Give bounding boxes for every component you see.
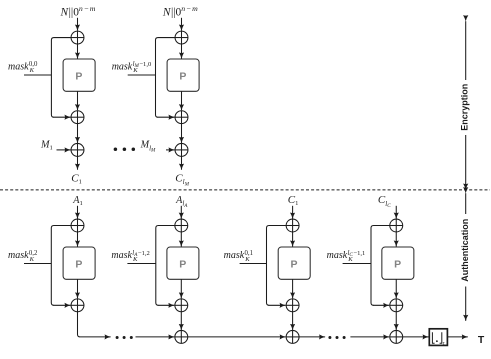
xor gate pre-whitening (auth branch 1)	[71, 219, 84, 232]
wire P to xor (auth branch 3)	[292, 279, 294, 298]
wire P to xor (auth branch 1)	[77, 279, 79, 298]
wire mask into post-whitening xor (auth branch 3)	[269, 304, 286, 306]
wire mask feed (auth branch 4)	[343, 263, 371, 265]
wire mask into post-whitening xor (branch 1)	[53, 116, 70, 118]
wire chain start from branch 1 down to accumulation row	[78, 312, 81, 337]
xor gate pre-whitening (auth branch 2)	[175, 219, 188, 232]
wire P to xor (auth branch 2)	[180, 279, 182, 298]
wire N input to xor (branch 1)	[77, 18, 79, 31]
wire mask feed (branch 2)	[128, 74, 156, 76]
ellipsis dots (accumulation row right)	[328, 336, 345, 339]
wire P to xor (branch 1)	[77, 91, 79, 110]
svg-text:mask: mask	[111, 250, 132, 261]
wire mask rail (auth branch 4)	[371, 226, 390, 306]
wire accumulation xor 4 to truncation box	[403, 336, 429, 338]
svg-text:K: K	[29, 256, 35, 263]
wire input to xor (auth branch 2)	[180, 206, 182, 219]
wire xor to P (auth branch 4)	[395, 232, 397, 247]
svg-text:P: P	[290, 258, 297, 270]
xor gate accumulation (auth branch 4)	[390, 330, 403, 343]
svg-text:mask: mask	[327, 250, 348, 261]
xor gate pre-whitening (encryption branch 1)	[71, 31, 84, 44]
xor gate post-whitening (auth branch 3)	[286, 299, 299, 312]
xor gate accumulation (auth branch 2)	[175, 330, 188, 343]
wire N input to xor (branch 2)	[181, 18, 183, 31]
wire mask into post-whitening xor (branch 2)	[158, 116, 175, 118]
wire accumulation xor 2 to 3	[188, 336, 286, 338]
wire truncation box to tag output	[447, 336, 467, 338]
permutation P (auth branch 2)	[167, 247, 199, 279]
wire xor to P (auth branch 1)	[77, 232, 79, 247]
ellipsis dots (accumulation row left)	[116, 336, 133, 339]
wire mask into post-whitening xor (auth branch 4)	[373, 304, 389, 306]
wire xor to P (auth branch 2)	[180, 232, 182, 247]
truncation box [.]_tau	[429, 329, 447, 347]
wire P to xor (branch 2)	[181, 91, 183, 110]
wire xor down to accumulation xor (auth branch 3)	[292, 312, 294, 330]
permutation P (auth branch 3)	[278, 247, 310, 279]
authentication section span arrow	[465, 193, 467, 321]
xor gate pre-whitening (auth branch 4)	[390, 219, 403, 232]
wire xor to message xor (branch 2)	[181, 124, 183, 143]
svg-text:mask: mask	[112, 61, 133, 72]
xor gate pre-whitening (encryption branch 2)	[175, 31, 188, 44]
wire ellipsis to accumulation xor 2	[136, 336, 175, 338]
svg-text:P: P	[394, 258, 401, 270]
xor gate post-whitening (auth branch 1)	[71, 299, 84, 312]
wire xor to P (branch 2)	[181, 44, 183, 59]
wire to ellipsis (accumulation row)	[80, 336, 111, 338]
wire input to xor (auth branch 3)	[292, 206, 294, 219]
xor gate post-whitening (auth branch 2)	[175, 299, 188, 312]
wire xor to P (branch 1)	[77, 44, 79, 59]
wire mask rail (encryption branch 2)	[156, 38, 176, 118]
svg-text:T: T	[478, 335, 485, 346]
wire to ciphertext output (branch 1)	[77, 156, 79, 169]
permutation P (encryption branch 1)	[63, 59, 95, 91]
permutation P (encryption branch 2)	[167, 59, 199, 91]
xor gate post-whitening (auth branch 4)	[390, 299, 403, 312]
permutation P (auth branch 1)	[63, 247, 95, 279]
xor gate pre-whitening (auth branch 3)	[286, 219, 299, 232]
svg-text:K: K	[244, 256, 250, 263]
xor gate post-whitening (encryption branch 1)	[71, 111, 84, 124]
svg-text:Encryption: Encryption	[459, 84, 469, 131]
wire mask rail (auth branch 2)	[156, 226, 175, 306]
wire message into xor (branch 1)	[57, 149, 71, 151]
svg-text:mask: mask	[8, 250, 29, 261]
svg-text:K: K	[347, 256, 353, 263]
wire mask rail (auth branch 3)	[267, 226, 287, 306]
wire xor to P (auth branch 3)	[292, 232, 294, 247]
ellipsis dots (encryption row)	[114, 147, 135, 151]
wire ellipsis to accumulation xor 4	[350, 336, 389, 338]
wire P to xor (auth branch 4)	[395, 279, 397, 298]
svg-text:mask: mask	[8, 61, 29, 72]
permutation P (auth branch 4)	[382, 247, 414, 279]
svg-text:K: K	[132, 67, 138, 74]
wire mask into post-whitening xor (auth branch 2)	[158, 304, 175, 306]
wire input to xor (auth branch 1)	[77, 206, 79, 219]
wire mask into post-whitening xor (auth branch 1)	[53, 304, 70, 306]
wire mask feed (auth branch 3)	[240, 263, 267, 265]
svg-text:P: P	[179, 258, 186, 270]
encryption section span arrow	[465, 21, 467, 189]
separator dashed line between encryption and authentication	[0, 189, 490, 191]
svg-text:P: P	[75, 258, 82, 270]
wire xor down to accumulation xor (auth branch 2)	[180, 312, 182, 330]
wire xor down to accumulation xor (auth branch 4)	[395, 312, 397, 330]
svg-text:P: P	[179, 70, 186, 82]
xor gate accumulation (auth branch 3)	[286, 330, 299, 343]
wire message into xor (branch 2)	[166, 149, 175, 151]
svg-text:Authentication: Authentication	[460, 219, 470, 282]
wire input to xor (auth branch 4)	[395, 206, 397, 219]
wire mask rail (encryption branch 1)	[51, 38, 71, 118]
svg-text:K: K	[132, 256, 138, 263]
xor gate post-whitening (encryption branch 2)	[175, 111, 188, 124]
wire mask feed (auth branch 1)	[24, 263, 51, 265]
wire xor to message xor (branch 1)	[77, 124, 79, 143]
wire mask feed (branch 1)	[24, 74, 51, 76]
wire mask rail (auth branch 1)	[51, 226, 71, 306]
svg-text:mask: mask	[224, 250, 245, 261]
xor gate message mixing (encryption branch 1)	[71, 143, 84, 156]
wire to ciphertext output (branch 2)	[181, 156, 183, 169]
svg-text:K: K	[29, 67, 35, 74]
svg-text:P: P	[75, 70, 82, 82]
wire accumulation xor 3 to ellipsis	[299, 336, 325, 338]
xor gate message mixing (encryption branch 2)	[175, 143, 188, 156]
wire mask feed (auth branch 2)	[127, 263, 155, 265]
